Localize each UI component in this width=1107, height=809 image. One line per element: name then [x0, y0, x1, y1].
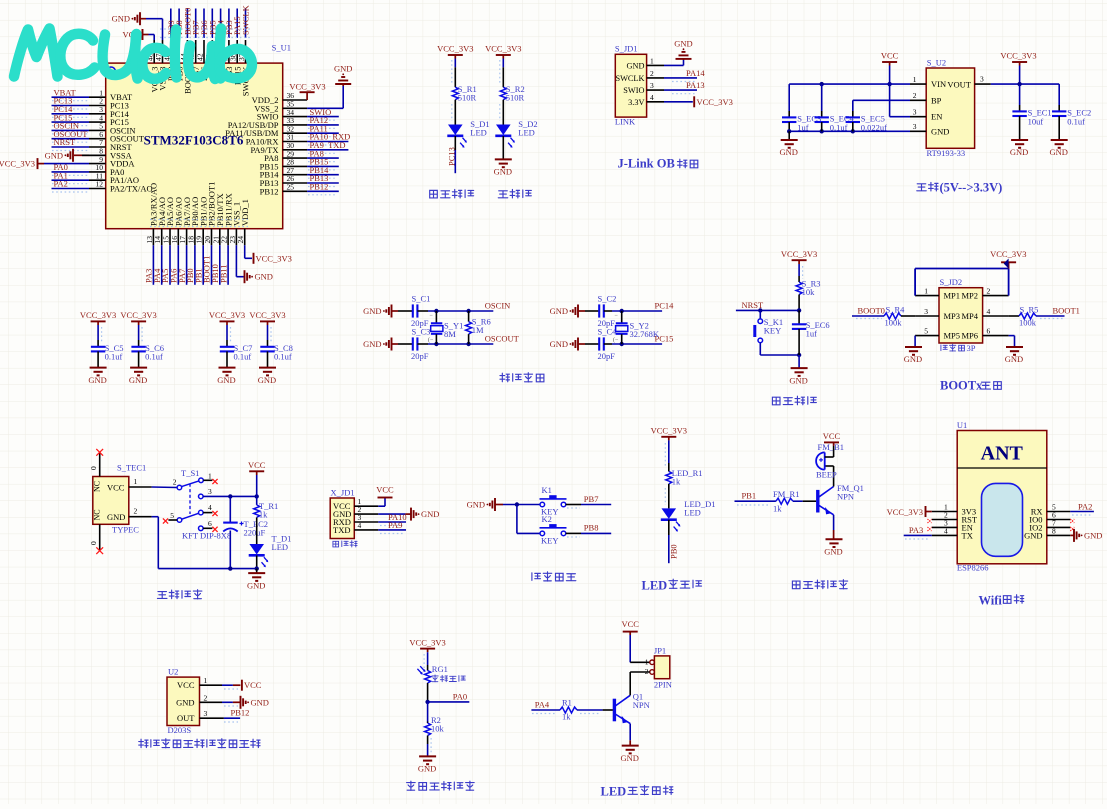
- junction: [255, 494, 259, 498]
- svg-text:BOOT1: BOOT1: [1053, 306, 1080, 316]
- svg-text:VCC: VCC: [621, 619, 639, 629]
- ground (buzzer): [826, 538, 843, 540]
- wire: [759, 343, 761, 355]
- svg-text:1k: 1k: [562, 712, 571, 722]
- connector X_JD1 body: [330, 498, 354, 539]
- transistor Q1 NPN: [613, 699, 616, 722]
- svg-text:10k: 10k: [431, 724, 445, 734]
- svg-text:GND: GND: [550, 306, 568, 316]
- svg-text:LINK: LINK: [615, 117, 636, 127]
- svg-text:0.1uf: 0.1uf: [1067, 117, 1085, 127]
- svg-text:PA2: PA2: [54, 179, 68, 189]
- svg-text:VCC_3V3: VCC_3V3: [1000, 50, 1036, 60]
- caption: power LED (Chinese): [498, 191, 508, 198]
- wire: [798, 355, 800, 368]
- jumper S_JD2 body: [939, 288, 983, 343]
- wire net PB0: [194, 245, 196, 284]
- svg-text:1: 1: [645, 658, 649, 667]
- no-connect x: [163, 518, 168, 523]
- S_TEC1 pin 1 VCC: [129, 486, 152, 488]
- wire PC14: [604, 310, 612, 312]
- svg-text:S_C3: S_C3: [412, 327, 431, 337]
- svg-text:PA3: PA3: [909, 525, 923, 535]
- MCUclub watermark logo: [14, 29, 252, 80]
- MCU top pin 45 PB8: [178, 40, 180, 63]
- transistor FM_Q1 NPN: [816, 490, 819, 513]
- svg-text:1: 1: [924, 286, 928, 295]
- svg-text:GND: GND: [363, 339, 381, 349]
- MCU right pin 33 PA12/USB/DP: [283, 124, 307, 126]
- svg-text:D203S: D203S: [168, 725, 192, 735]
- wire net PA3: [152, 245, 154, 284]
- svg-text:SWCLK: SWCLK: [241, 4, 251, 35]
- wire net PA0: [428, 701, 470, 703]
- U1 right pin 5 RX: [1047, 511, 1071, 513]
- svg-text:0.022uf: 0.022uf: [861, 123, 887, 133]
- no-connect x: [96, 547, 103, 554]
- wire net BOOT0: [186, 9, 188, 39]
- wire net PA2: [52, 188, 90, 190]
- X_JD1 pin 1 VCC: [354, 505, 378, 507]
- svg-text:MP5: MP5: [944, 331, 961, 341]
- svg-text:SWCLK: SWCLK: [615, 74, 644, 83]
- capacitor S_C4 20pF: [598, 337, 600, 350]
- svg-text:EN: EN: [931, 112, 942, 122]
- svg-text:VCC_3V3: VCC_3V3: [781, 249, 817, 259]
- MCU left pin 2 PC13: [89, 105, 106, 107]
- capacitor S_C2 20pF: [598, 304, 600, 317]
- MCU right pin 30 PA9/TX: [283, 149, 307, 151]
- svg-text:PC13: PC13: [447, 147, 457, 166]
- wire: [97, 351, 99, 367]
- junction: [887, 82, 891, 86]
- ground (lighting): [622, 745, 639, 747]
- MCU right pin 29 PA8: [283, 157, 307, 159]
- svg-text:5: 5: [924, 326, 928, 335]
- svg-text:VCC_3V3: VCC_3V3: [697, 97, 733, 107]
- wire: [901, 315, 915, 317]
- svg-text:0.1uf: 0.1uf: [274, 352, 292, 362]
- ground at MCU pin 35 VSS_2: [307, 107, 343, 109]
- svg-text:GND: GND: [494, 167, 512, 177]
- LED LED_D1: [662, 508, 677, 519]
- svg-text:LED: LED: [518, 128, 535, 138]
- MCU left pin 10 PA0: [89, 171, 106, 173]
- wire VCC to EN: [889, 66, 891, 117]
- svg-text:OSCOUT: OSCOUT: [485, 334, 520, 344]
- JP1 pin 1: [650, 660, 655, 665]
- svg-text:NPN: NPN: [837, 492, 854, 502]
- LED T_D1: [249, 544, 264, 555]
- svg-text:12: 12: [96, 180, 104, 189]
- wire emitter to ground: [629, 724, 631, 741]
- svg-text:S_U1: S_U1: [272, 43, 291, 53]
- MCU left pin 4 PC15: [89, 121, 106, 123]
- svg-text:NC: NC: [93, 481, 102, 492]
- wire net PC13: [52, 105, 90, 107]
- svg-text:S_JD1: S_JD1: [615, 44, 638, 54]
- svg-text:K2: K2: [542, 514, 552, 524]
- wire net PB1: [202, 245, 204, 284]
- svg-text:U2: U2: [168, 667, 178, 677]
- wire: [97, 325, 99, 340]
- wire net PA2: [1070, 511, 1094, 513]
- junction: [797, 308, 801, 312]
- selection dots below MCU bottom pins: [150, 219, 248, 221]
- svg-text:GND: GND: [334, 64, 352, 74]
- svg-text:MP4: MP4: [961, 311, 978, 321]
- wire net PA3: [904, 534, 932, 536]
- svg-text:PB12: PB12: [231, 708, 250, 718]
- caption: power circuit (Chinese): [157, 592, 167, 599]
- junction: [515, 502, 519, 506]
- S_TEC1 bottom shell pin 0: [99, 524, 101, 550]
- ground (S_JD2 pin6): [1006, 346, 1023, 348]
- ground (T circuit): [248, 572, 265, 574]
- svg-text:2: 2: [204, 693, 208, 702]
- svg-text:PA9: PA9: [388, 520, 402, 530]
- ground (S_JD2 pin5): [905, 346, 922, 348]
- wire OSCOUT: [417, 343, 428, 345]
- ground (wifi pin 8): [1070, 534, 1074, 536]
- wire net PB14: [307, 174, 339, 176]
- capacitor S_C5 0.1uf: [91, 346, 105, 348]
- svg-text:VCC_3V3: VCC_3V3: [887, 507, 923, 517]
- svg-text:10k: 10k: [802, 287, 816, 297]
- wire: [793, 500, 803, 502]
- wire VOUT rail: [991, 83, 1059, 85]
- svg-text:S_R5: S_R5: [1020, 305, 1039, 315]
- svg-text:100k: 100k: [1019, 318, 1037, 328]
- ground (keys): [494, 498, 496, 511]
- svg-text:X_JD1: X_JD1: [331, 488, 355, 498]
- wire: [668, 484, 670, 509]
- wire net OSCOUT: [52, 138, 90, 140]
- svg-text:GND: GND: [176, 697, 194, 707]
- svg-text:BEEP: BEEP: [816, 470, 837, 480]
- wire net PA10_RXD: [307, 141, 348, 143]
- ground (light): [419, 755, 436, 757]
- junction: [620, 309, 624, 313]
- wire: [454, 136, 456, 150]
- svg-text:2: 2: [650, 69, 654, 78]
- svg-text:S_R4: S_R4: [886, 305, 906, 315]
- wire PC15: [604, 343, 612, 345]
- capacitor S_C8 0.1uf: [260, 346, 274, 348]
- wire to ground (J-Link pin1): [664, 64, 684, 66]
- connector JP1 2PIN body: [654, 656, 669, 679]
- T_S1 pin 6: [199, 526, 204, 531]
- wire: [798, 295, 800, 311]
- wire net PA14: [664, 77, 697, 79]
- junction: [425, 700, 429, 704]
- svg-text:0.1uf: 0.1uf: [105, 352, 123, 362]
- MCU bottom pin 23 VSS_1: [235, 229, 237, 246]
- T_S1 mechanical link (dashed): [189, 484, 191, 515]
- ground below S_C6: [130, 367, 147, 369]
- MCU top pin 37 SWCLK: [245, 40, 247, 63]
- part comment jumper-cap 3P (Chinese): [941, 345, 947, 351]
- wire net PB12: [224, 717, 240, 719]
- svg-text:S_U2: S_U2: [927, 58, 946, 68]
- wire: [798, 264, 800, 276]
- MCU left pin 1 VBAT: [89, 96, 106, 98]
- buzzer FM_B1 BEEP: [824, 452, 826, 469]
- ground (left of S_C3): [391, 338, 393, 351]
- MCU bottom pin 16 PA6/AO: [177, 229, 179, 246]
- svg-text:S_JD2: S_JD2: [940, 277, 963, 287]
- svg-text:LED: LED: [601, 784, 627, 798]
- MCU top pin 46 PB9: [170, 40, 172, 63]
- ground below S_EC1: [1011, 139, 1028, 141]
- JP1 pin 2: [650, 670, 655, 675]
- wire net PA8: [307, 157, 339, 159]
- wire net PB7: [566, 504, 581, 506]
- svg-text:5: 5: [170, 511, 174, 520]
- wire net PB8: [178, 9, 180, 39]
- wire collector to buzzer: [825, 465, 834, 467]
- S_JD2 pin 4 MP4: [983, 315, 1009, 317]
- polarized capacitor T_EC2 220uF: [229, 496, 231, 522]
- wire net SWIO: [307, 116, 339, 118]
- svg-text:VCC_3V3: VCC_3V3: [485, 44, 521, 54]
- svg-text:VCC: VCC: [823, 431, 841, 441]
- svg-text:GND: GND: [45, 150, 63, 160]
- svg-text:3: 3: [913, 122, 917, 131]
- svg-text:KEY: KEY: [541, 535, 558, 545]
- MCU right pin 27 PB14: [283, 174, 307, 176]
- svg-text:0.1uf: 0.1uf: [830, 123, 848, 133]
- capacitor S_C6 0.1uf: [131, 346, 145, 348]
- U1 left pin 1 3V3: [932, 511, 957, 513]
- junction: [228, 494, 232, 498]
- svg-text:LED: LED: [470, 128, 487, 138]
- MCU top pin 41 PB5: [211, 40, 213, 63]
- svg-text:ESP8266: ESP8266: [957, 563, 989, 573]
- wire net SWCLK: [245, 9, 247, 39]
- wire: [267, 351, 269, 367]
- wire: [502, 100, 504, 125]
- wire net PB13: [307, 182, 339, 184]
- svg-text:BOOTx: BOOTx: [940, 379, 983, 393]
- svg-text:3: 3: [208, 487, 212, 496]
- resistor S_R2 510R: [500, 87, 506, 100]
- svg-text:4: 4: [358, 521, 362, 530]
- junction: [620, 342, 624, 346]
- svg-text:TXD: TXD: [333, 525, 350, 535]
- svg-text:ANT: ANT: [981, 443, 1024, 465]
- wire + power VCC (X_JD1 pin1): [378, 505, 385, 507]
- svg-text:1k: 1k: [773, 504, 782, 514]
- wire pin3 to VCC node: [203, 495, 257, 497]
- svg-text:VCC: VCC: [248, 460, 266, 470]
- svg-text:VOUT: VOUT: [947, 79, 971, 89]
- wire GND net to bottom rail: [152, 516, 159, 518]
- svg-text:VCC_3V3: VCC_3V3: [0, 159, 35, 169]
- U1 left pin 3 EN: [932, 526, 957, 528]
- svg-text:Wifi: Wifi: [979, 593, 1003, 607]
- svg-text:0: 0: [89, 466, 98, 470]
- ground (left of S_C1): [391, 305, 393, 318]
- svg-text:25: 25: [287, 183, 295, 192]
- wire: [256, 475, 258, 505]
- svg-text:LED: LED: [684, 508, 701, 518]
- svg-text:GND: GND: [550, 339, 568, 349]
- svg-text:VCC_3V3: VCC_3V3: [409, 638, 445, 648]
- svg-text:510R: 510R: [458, 93, 477, 103]
- svg-text:NC: NC: [93, 509, 102, 520]
- svg-text:1: 1: [650, 56, 654, 65]
- ground at MCU pin 23 VSS_1: [235, 245, 237, 276]
- no-connect x (IO2): [1070, 527, 1074, 531]
- ground below S_C8: [259, 367, 276, 369]
- wire net PB5: [211, 9, 213, 39]
- svg-text:LED: LED: [272, 542, 289, 552]
- resistor FM_R1 1k: [776, 498, 793, 504]
- wire: [454, 100, 456, 125]
- svg-text:PA2: PA2: [1078, 501, 1092, 511]
- X_JD1 pin 3 RXD: [354, 521, 378, 523]
- wire VCC down to JP1 pin1: [629, 635, 631, 662]
- MCU top pin 48 VCC_3: [153, 40, 155, 63]
- svg-text:GND: GND: [88, 375, 106, 385]
- svg-text:VCC_3V3: VCC_3V3: [120, 310, 156, 320]
- svg-text:K1: K1: [542, 485, 552, 495]
- svg-text:NPN: NPN: [633, 700, 650, 710]
- MCU left pin 7 NRST: [89, 146, 106, 148]
- svg-text:3: 3: [204, 709, 208, 718]
- caption: key circuit (Chinese): [532, 573, 541, 581]
- ground (X_JD1): [410, 508, 412, 521]
- U1 left pin 4 TX: [932, 534, 957, 536]
- svg-text:VIN: VIN: [931, 79, 946, 89]
- MCU right pin 35 VSS_2: [283, 107, 307, 109]
- svg-text:KEY: KEY: [764, 326, 781, 336]
- wire: [577, 709, 603, 711]
- MCU top pin 47 VSS_3: [162, 40, 164, 63]
- svg-text:FM_B1: FM_B1: [818, 442, 844, 452]
- svg-text:GND: GND: [789, 375, 807, 385]
- svg-text:PC14: PC14: [655, 301, 675, 311]
- wire net PA0: [52, 171, 90, 173]
- svg-text:3: 3: [650, 81, 654, 90]
- svg-text:PB8: PB8: [584, 523, 599, 533]
- svg-text:6: 6: [208, 519, 212, 528]
- svg-text:GND: GND: [620, 753, 638, 763]
- T_S1 pin 3: [199, 494, 204, 499]
- wire net PB10: [219, 245, 221, 284]
- crystal S_Y1 8M: [435, 311, 437, 323]
- module U2 D203S body: [167, 677, 200, 725]
- X_JD1 pin 4 TXD: [354, 529, 378, 531]
- svg-text:R1: R1: [562, 698, 572, 708]
- wire net PB15: [307, 165, 339, 167]
- capacitor S_EC3 1uf: [788, 84, 790, 111]
- wire GND rail: [789, 130, 910, 132]
- MCU left pin 9 VDDA: [89, 163, 106, 165]
- svg-text:GND: GND: [674, 38, 692, 48]
- svg-text:JP1: JP1: [654, 646, 666, 656]
- wire PA4 to R1: [531, 709, 560, 711]
- MCU left pin 6 OSCOUT: [89, 138, 106, 140]
- svg-text:1: 1: [204, 676, 208, 685]
- svg-text:PA4: PA4: [535, 700, 550, 710]
- capacitor S_EC1 10uf: [1019, 84, 1021, 105]
- push button S_K1 KEY: [759, 310, 761, 319]
- MCU bottom pin 24 VDD_1: [244, 229, 246, 246]
- ground (left of S_C4): [577, 338, 579, 351]
- S_JD2 pin 3 MP3: [915, 315, 939, 317]
- resistor LED_R1 1k: [666, 471, 672, 484]
- caption: programmable LED (Chinese): [430, 190, 438, 198]
- svg-text:20pF: 20pF: [598, 351, 616, 361]
- MCU left pin 8 VSSA: [89, 154, 106, 156]
- junction: [466, 342, 470, 346]
- svg-text:PA0: PA0: [453, 691, 467, 701]
- caption: buzzer circuit (Chinese): [792, 581, 800, 589]
- svg-text:TX: TX: [962, 530, 973, 540]
- module U1 ESP8266 body: [957, 431, 1047, 564]
- MCU right pin 32 PA11/USB/DM: [283, 132, 307, 134]
- resistor S_R3 10k: [796, 282, 802, 295]
- svg-text:VCC: VCC: [376, 485, 394, 495]
- svg-text:8M: 8M: [444, 329, 456, 339]
- svg-text:VCC: VCC: [244, 680, 262, 690]
- svg-text:GND: GND: [1005, 354, 1023, 364]
- svg-text:GND: GND: [467, 500, 485, 510]
- wire PB1 to FM_R1: [735, 500, 776, 502]
- photoresistor RG1: [425, 671, 431, 684]
- junction: [1017, 82, 1021, 86]
- svg-text:VDD_1: VDD_1: [240, 199, 250, 226]
- MCU top pin 40 PB4: [220, 40, 222, 63]
- svg-text:PB11: PB11: [218, 264, 228, 283]
- svg-text:1uf: 1uf: [797, 123, 809, 133]
- capacitor S_EC5 0.022uf: [852, 111, 854, 117]
- ground below S_C7: [219, 367, 236, 369]
- svg-text:2: 2: [173, 478, 177, 487]
- wire net NRST: [736, 309, 799, 311]
- caption: human pyroelectric IR sensing module (Chinese): [139, 739, 148, 747]
- wire: [1009, 315, 1019, 317]
- svg-text:RG1: RG1: [432, 664, 448, 674]
- wire to ground (X_JD1 pin2): [378, 513, 405, 515]
- svg-text:VCC_3V3: VCC_3V3: [289, 82, 325, 92]
- svg-text:PB0: PB0: [669, 544, 679, 559]
- S_U2 pin 2 BP: [910, 99, 926, 101]
- capacitor S_EC4 0.1uf: [821, 84, 823, 111]
- svg-text:24: 24: [236, 236, 245, 244]
- svg-text:RT9193-33: RT9193-33: [927, 148, 966, 158]
- U1 left pin 2 RST: [932, 519, 957, 521]
- MCU right pin 26 PB13: [283, 182, 307, 184]
- svg-text:GND: GND: [1010, 147, 1028, 157]
- svg-text:220uF: 220uF: [244, 528, 266, 538]
- svg-text:PA14: PA14: [686, 68, 705, 78]
- MCU bottom pin 20 PB2/BOOT1: [211, 229, 213, 246]
- MCU top pin 43 PB7: [195, 40, 197, 63]
- U2 pin 3 OUT: [200, 717, 224, 719]
- junction: [851, 129, 855, 133]
- svg-text:S_C1: S_C1: [412, 294, 431, 304]
- wire net PB4: [220, 9, 222, 39]
- wire net PB9: [170, 9, 172, 39]
- no-connect x (IO0): [1070, 519, 1074, 523]
- svg-text:PB12: PB12: [310, 182, 329, 192]
- wire net PA6: [177, 245, 179, 284]
- S_TEC1 pin 2 GND: [129, 516, 152, 518]
- svg-text:1M: 1M: [472, 325, 484, 335]
